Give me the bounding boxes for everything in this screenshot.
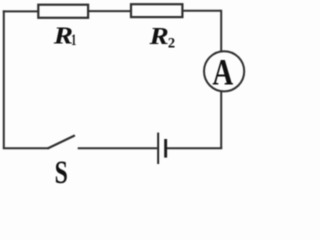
wire: bottom right segment (corner to battery) — [167, 147, 222, 149]
wire: bottom left segment — [3, 147, 49, 149]
svg-text:R: R — [148, 22, 168, 49]
label R1 — [53, 22, 77, 49]
switch S lever — [48, 135, 75, 148]
ammeter A — [204, 51, 244, 91]
label R2 — [148, 22, 175, 51]
wire: right vertical upper — [220, 10, 222, 52]
svg-text:A: A — [212, 53, 233, 93]
svg-text:S: S — [55, 156, 68, 184]
wire: top segment left to R1 — [3, 10, 38, 12]
battery positive plate (long) — [157, 133, 159, 164]
svg-text:R: R — [53, 22, 73, 49]
wire: top segment R2 to corner — [184, 10, 222, 12]
battery negative plate (short) — [164, 139, 167, 158]
wire: left vertical — [3, 10, 5, 148]
wire: top segment R1 to R2 — [89, 10, 131, 12]
resistor R2 — [131, 4, 182, 17]
svg-text:1: 1 — [71, 31, 76, 49]
svg-text:2: 2 — [168, 35, 175, 51]
wire: battery to switch contact — [78, 147, 158, 149]
wire: right vertical lower — [220, 92, 222, 149]
resistor R1 — [38, 5, 88, 18]
